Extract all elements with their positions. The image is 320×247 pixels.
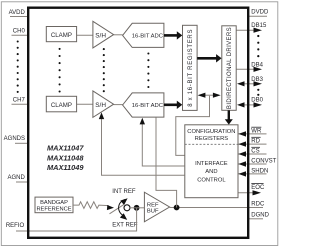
bus arrow registers to drivers bbox=[197, 54, 221, 62]
wire CLAMP2 to S/H2 bbox=[77, 103, 93, 105]
svg-text:CLAMP: CLAMP bbox=[51, 32, 72, 39]
svg-text:AGNDS: AGNDS bbox=[4, 136, 25, 142]
pin RDC bbox=[251, 202, 265, 208]
pin SHDN bbox=[238, 168, 268, 176]
svg-text:RD: RD bbox=[251, 138, 260, 144]
pin AGNDS bbox=[4, 136, 29, 143]
svg-text:INT REF: INT REF bbox=[112, 189, 136, 195]
chip outline box bbox=[28, 8, 248, 238]
wire reference to ADC2 bbox=[156, 117, 177, 207]
svg-text:8 x 16-BIT REGISTERS: 8 x 16-BIT REGISTERS bbox=[188, 29, 194, 107]
bidirectional bus arrow registers-drivers bbox=[198, 93, 221, 98]
wire REFIO to switch bbox=[29, 208, 137, 231]
svg-text:REF: REF bbox=[147, 202, 159, 208]
pin WR bbox=[238, 127, 266, 136]
svg-text:MAX11049: MAX11049 bbox=[47, 163, 84, 172]
svg-text:AND: AND bbox=[205, 169, 217, 175]
s/h amplifier S/H1 bbox=[93, 21, 114, 48]
wire S/H1 to ADC1 bbox=[114, 34, 123, 36]
bandgap reference block bbox=[35, 197, 73, 213]
adc ADC2 bbox=[123, 93, 164, 117]
pin DVDD bbox=[248, 10, 269, 17]
control wire interface to ADC2 bbox=[140, 118, 185, 166]
switch common terminal bbox=[124, 205, 130, 211]
svg-text:AVDD: AVDD bbox=[9, 10, 26, 16]
wire switch to ref buffer bbox=[130, 207, 145, 209]
config registers / interface block bbox=[185, 125, 238, 198]
resistor bbox=[73, 202, 109, 209]
clamp block CLAMP1 bbox=[46, 27, 76, 42]
svg-text:DB3: DB3 bbox=[251, 77, 263, 83]
svg-text:DVDD: DVDD bbox=[251, 10, 269, 16]
registers block 8 x 16-BIT REGISTERS bbox=[183, 25, 198, 110]
svg-text:S/H: S/H bbox=[95, 102, 106, 109]
svg-text:REGISTERS: REGISTERS bbox=[195, 136, 229, 142]
continuation dots channel inputs bbox=[17, 40, 19, 92]
svg-text:DB0: DB0 bbox=[251, 97, 263, 103]
pin DB3 bbox=[237, 77, 264, 86]
svg-text:CONFIGURATION: CONFIGURATION bbox=[187, 129, 235, 135]
switch wiper line bbox=[110, 205, 124, 214]
pin DB4 bbox=[236, 63, 263, 72]
svg-text:CLAMP: CLAMP bbox=[51, 102, 72, 109]
svg-text:INTERFACE: INTERFACE bbox=[195, 161, 228, 167]
wire S/H2 to ADC2 bbox=[114, 104, 123, 106]
svg-text:BUF: BUF bbox=[147, 209, 159, 215]
node ref buffer output junction bbox=[174, 205, 180, 211]
clamp block CLAMP2 bbox=[46, 96, 76, 112]
s/h amplifier S/H2 bbox=[93, 91, 114, 118]
continuation dots data bus lower bbox=[257, 89, 259, 96]
bus arrow drivers to config registers bbox=[225, 110, 233, 124]
continuation dots data bus upper bbox=[257, 35, 259, 57]
svg-text:REFERENCE: REFERENCE bbox=[36, 207, 71, 213]
continuation dots s/h bbox=[103, 48, 105, 92]
wire CLAMP1 to S/H1 bbox=[77, 34, 93, 36]
svg-text:BANDGAP: BANDGAP bbox=[40, 200, 68, 206]
svg-text:EXT REF: EXT REF bbox=[112, 223, 138, 229]
svg-text:S/H: S/H bbox=[95, 32, 106, 39]
svg-text:DGND: DGND bbox=[251, 213, 269, 219]
pin DGND bbox=[248, 213, 270, 219]
svg-text:16-BIT ADC: 16-BIT ADC bbox=[132, 34, 164, 40]
svg-text:CH7: CH7 bbox=[13, 97, 26, 103]
svg-text:16-BIT ADC: 16-BIT ADC bbox=[132, 103, 164, 109]
wire data bus to interface bbox=[176, 96, 210, 156]
adc ADC1 bbox=[123, 23, 164, 47]
control wire interface to S/H2 bbox=[99, 112, 185, 175]
svg-text:EOC: EOC bbox=[251, 185, 265, 191]
switch wiper arrow bbox=[107, 205, 114, 210]
pin RD bbox=[238, 137, 266, 147]
wire ref buffer output to RDC pin bbox=[170, 207, 263, 209]
continuation dots adc bbox=[147, 52, 149, 88]
drivers block BIDIRECTIONAL DRIVERS bbox=[222, 26, 236, 111]
svg-text:CH0: CH0 bbox=[13, 28, 26, 34]
pin AVDD bbox=[9, 10, 29, 17]
ref buffer REF BUF bbox=[144, 192, 169, 222]
pin CH7 bbox=[12, 97, 30, 104]
svg-text:RDC: RDC bbox=[251, 202, 265, 208]
bus arrow ADC1 to registers bbox=[164, 31, 182, 39]
svg-text:AGND: AGND bbox=[7, 175, 25, 181]
pin DB15 bbox=[236, 23, 267, 33]
svg-text:BIDIRECTIONAL DRIVERS: BIDIRECTIONAL DRIVERS bbox=[227, 27, 233, 109]
pin CONVST bbox=[238, 158, 276, 166]
svg-text:DB4: DB4 bbox=[251, 63, 263, 69]
continuation dots clamps bbox=[59, 48, 61, 93]
pin REFIO bbox=[6, 223, 29, 231]
pin DB0 bbox=[237, 97, 264, 107]
switch selector arc INT/EXT REF bbox=[119, 198, 128, 220]
svg-text:REFIO: REFIO bbox=[6, 223, 25, 229]
svg-text:MAX11047: MAX11047 bbox=[47, 144, 84, 153]
svg-text:CONTROL: CONTROL bbox=[197, 177, 226, 183]
pin CH0 bbox=[12, 28, 30, 35]
pin AGND bbox=[7, 175, 29, 182]
bus arrow ADC2 to registers bbox=[164, 101, 182, 109]
pin EOC bbox=[238, 184, 265, 196]
node switch output junction bbox=[134, 205, 140, 211]
svg-text:MAX11048: MAX11048 bbox=[47, 153, 84, 162]
pin CS bbox=[238, 147, 266, 156]
